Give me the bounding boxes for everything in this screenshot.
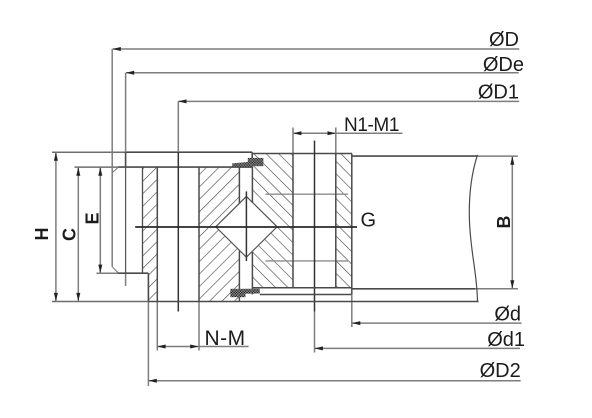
bore gear-tip line OD extension xyxy=(111,49,113,267)
N1 hole right wall xyxy=(335,154,337,288)
outer ring top surface xyxy=(253,153,352,155)
label E xyxy=(83,212,103,224)
bore bottom chamfer xyxy=(112,267,118,273)
retainer strip bottom edge / C E extension line xyxy=(75,166,253,168)
svg-text:B: B xyxy=(494,216,514,229)
outer ring right boundary / step / Od extension xyxy=(351,154,353,328)
svg-text:ØD: ØD xyxy=(489,29,519,51)
roller centerline xyxy=(245,191,247,261)
inner ring top surface xyxy=(52,151,252,153)
svg-text:ØD2: ØD2 xyxy=(480,360,521,382)
N1 hole left wall xyxy=(292,154,294,288)
N-M hole right wall xyxy=(198,167,200,350)
dimension line N1-M1 with outward arrows xyxy=(293,131,402,135)
assembly bottom mounting line xyxy=(52,301,479,303)
svg-text:Ød1: Ød1 xyxy=(487,329,525,351)
label Od1 xyxy=(487,329,525,351)
label N-M xyxy=(205,327,246,350)
roller diamond xyxy=(216,196,277,257)
extension line N1 hole left xyxy=(292,128,294,154)
svg-text:ØD1: ØD1 xyxy=(478,82,519,104)
label C xyxy=(60,228,80,241)
label ODe xyxy=(483,54,524,76)
svg-text:G: G xyxy=(361,210,377,232)
extension line N1 hole right xyxy=(335,128,337,154)
E dimension line with arrows xyxy=(98,167,102,273)
dimension line Od1 xyxy=(315,346,521,350)
gear root line ODe extension xyxy=(125,73,127,286)
dimension line ODe xyxy=(126,71,519,75)
svg-text:ØDe: ØDe xyxy=(483,54,524,76)
inner ring lower ledge xyxy=(97,272,149,274)
N-M hole left wall xyxy=(156,167,158,350)
dimension line OD1 xyxy=(178,99,519,103)
outer ring inner face lower xyxy=(251,252,253,295)
inner ring right face lower xyxy=(238,250,240,302)
svg-text:N1-M1: N1-M1 xyxy=(344,115,399,136)
dimension line OD xyxy=(112,47,519,51)
label B xyxy=(494,216,514,229)
C dimension line with arrows xyxy=(76,167,80,301)
top seal xyxy=(232,158,263,167)
inner ring right face upper xyxy=(238,167,240,204)
dimension line OD2 xyxy=(148,379,520,383)
label H xyxy=(32,228,52,241)
label OD2 xyxy=(480,360,521,382)
G grease centerline xyxy=(135,226,357,228)
retainer strip left edge xyxy=(125,152,127,167)
label N1-M1 xyxy=(344,115,399,136)
svg-text:N-M: N-M xyxy=(205,327,246,350)
raceway relief line lower xyxy=(265,260,348,262)
outer ring bottom strip top edge xyxy=(252,287,351,289)
bore top chamfer xyxy=(112,167,118,173)
N1-M1 bolt hole white cut in outer ring xyxy=(293,153,336,289)
N1 hole centerline Od1 extension xyxy=(314,141,316,353)
N-M hole centerline OD1 extension xyxy=(177,101,179,311)
svg-text:C: C xyxy=(60,228,80,241)
label OD1 xyxy=(478,82,519,104)
gear rim bottom surface right piece xyxy=(352,288,518,290)
label OD xyxy=(489,29,519,51)
label Od xyxy=(494,304,521,326)
gear rim top surface right piece xyxy=(352,155,518,157)
N-M dimension line with outward arrows xyxy=(157,345,248,349)
outer ring inner face upper xyxy=(251,166,253,203)
svg-text:H: H xyxy=(32,228,52,241)
B dimension line with arrows xyxy=(510,156,514,289)
inner ring step edge OD2 xyxy=(147,273,149,386)
outer ring hatched body xyxy=(253,154,352,288)
outer ring bottom surface xyxy=(260,294,352,296)
inner ring left hatch band with lower step xyxy=(143,167,158,301)
bottom seal xyxy=(230,289,259,297)
H dimension line with arrows xyxy=(54,152,58,301)
break line wavy xyxy=(469,155,477,301)
retainer strip right edge (seal lip) xyxy=(251,152,253,158)
label G xyxy=(361,210,377,232)
svg-text:Ød: Ød xyxy=(494,304,521,326)
dimension line Od xyxy=(352,321,522,325)
inner ring upper hatched body xyxy=(199,167,239,301)
gear zone hatch boundary xyxy=(142,167,144,273)
svg-text:E: E xyxy=(83,212,103,224)
raceway relief line upper xyxy=(265,193,348,195)
